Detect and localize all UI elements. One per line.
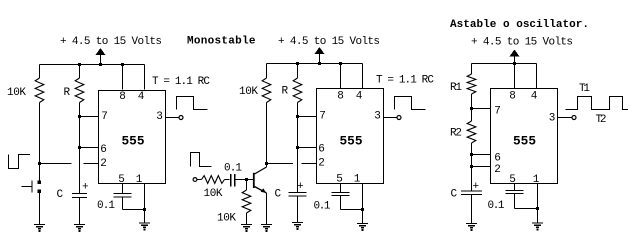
wire: pin 2 lead (right) bbox=[472, 166, 491, 168]
wire: 0.1 cap to pin-1 column (left) bbox=[122, 197, 124, 210]
resistor R (middle) bbox=[293, 78, 302, 103]
svg-text:3: 3 bbox=[374, 111, 381, 123]
wire: R bottom through pin junctions to C (middle) bbox=[297, 103, 299, 193]
svg-text:T = 1.1 RC: T = 1.1 RC bbox=[152, 76, 210, 88]
wire: R2 bottom through pin 6/2 nodes to C (right) bbox=[471, 143, 473, 191]
node: rail junction at R (left) bbox=[78, 63, 81, 66]
svg-text:555: 555 bbox=[340, 134, 363, 149]
wire: left top supply rail bbox=[40, 64, 145, 66]
svg-text:10K: 10K bbox=[7, 87, 26, 99]
svg-text:+: + bbox=[297, 181, 304, 193]
wire: pin 7 lead (left) bbox=[80, 116, 99, 118]
svg-text:5: 5 bbox=[118, 174, 125, 186]
svg-text:1: 1 bbox=[533, 174, 540, 186]
node: rail junction at supply stem (middle) bbox=[318, 62, 321, 65]
ground below C (right) bbox=[466, 224, 477, 232]
svg-text:4: 4 bbox=[356, 91, 363, 103]
svg-text:Monostable: Monostable bbox=[187, 36, 256, 48]
wire: pin 1 to ground (middle) bbox=[362, 184, 364, 224]
svg-text:2: 2 bbox=[494, 164, 501, 176]
wire: pin 4 lead from rail (right) bbox=[536, 64, 538, 89]
wire: trigger to pin 2, left segment (left) bbox=[40, 163, 72, 165]
wire: pin 4 lead from rail (middle) bbox=[362, 64, 364, 89]
op-amp/IC U1 555 body (left) bbox=[99, 91, 166, 184]
wire: pin 5 lead down (right) bbox=[514, 184, 516, 191]
svg-text:0.1: 0.1 bbox=[314, 201, 331, 213]
resistor 10K pull-up (left) bbox=[35, 78, 44, 103]
svg-text:+ 4.5 to 15 Volts: + 4.5 to 15 Volts bbox=[278, 36, 380, 48]
capacitor C timing (right) bbox=[461, 191, 482, 195]
svg-text:7: 7 bbox=[494, 106, 501, 118]
wire: pin 1 to ground (right) bbox=[537, 184, 539, 224]
wire: resistor to coupling cap (middle) bbox=[225, 179, 230, 181]
node: collector/trigger node (middle) bbox=[265, 162, 268, 165]
wire: 10K top lead (left) bbox=[39, 65, 41, 79]
svg-text:555: 555 bbox=[122, 134, 145, 149]
svg-text:4: 4 bbox=[531, 91, 538, 103]
wire: C to ground (middle) bbox=[297, 196, 299, 223]
wire: pin 6 lead (left) bbox=[80, 147, 99, 149]
waveform: input positive pulse (middle) bbox=[191, 153, 212, 167]
wire: pin 3 output lead (left) bbox=[166, 117, 180, 119]
resistor R2 (right) bbox=[467, 121, 476, 143]
transistor Q1 NPN (middle) bbox=[254, 167, 267, 193]
resistor 10K series input (middle) bbox=[202, 176, 225, 184]
wire: pin 5 lead down (middle) bbox=[340, 184, 342, 193]
node: junction at pin 7 (left) bbox=[78, 115, 81, 118]
node: junction at pin 1 column (middle) bbox=[361, 208, 364, 211]
wire: pin 6 lead (right) bbox=[472, 154, 491, 156]
svg-text:+: + bbox=[82, 182, 89, 194]
ground below pulldown (middle) bbox=[241, 225, 252, 233]
resistor R1 (right) bbox=[467, 74, 476, 94]
wire: pin 7 lead (middle) bbox=[298, 116, 317, 118]
waveform: square wave output (right) bbox=[566, 97, 629, 110]
wire: pin 3 output lead (middle) bbox=[384, 117, 398, 119]
switch S1 pushbutton (left) bbox=[22, 181, 42, 194]
svg-text:5: 5 bbox=[336, 174, 343, 186]
waveform: output pulse (middle) bbox=[395, 97, 426, 110]
wire: trigger to pin 2 left segment (middle) bbox=[267, 163, 294, 165]
capacitor C timing (middle) bbox=[288, 193, 306, 197]
svg-text:2: 2 bbox=[100, 158, 107, 170]
ground below switch (left) bbox=[34, 225, 45, 233]
wire: R1 bottom to pin 7 node and R2 (right) bbox=[471, 94, 473, 121]
wire: pin 2 lead right of crossover (middle) bbox=[302, 163, 317, 165]
svg-text:0.1: 0.1 bbox=[224, 163, 242, 175]
wire: pin 3 output lead (right) bbox=[558, 117, 573, 119]
svg-text:0.1: 0.1 bbox=[488, 200, 505, 212]
supply arrow (middle) bbox=[315, 47, 325, 65]
wire: 0.1 cap to pin-1 column (middle) bbox=[340, 196, 342, 210]
wire: pin 8 lead from rail (right) bbox=[514, 64, 516, 89]
wire: switch to ground (left) bbox=[39, 193, 41, 225]
op-amp/IC U2 555 body (middle) bbox=[317, 89, 384, 184]
svg-text:C: C bbox=[451, 189, 458, 201]
svg-text:6: 6 bbox=[318, 144, 325, 156]
ground below pin 1 (right) bbox=[532, 223, 543, 231]
wire: pulldown to ground (middle) bbox=[246, 213, 248, 225]
svg-text:1: 1 bbox=[136, 174, 143, 186]
node: junction at pin 6 (left) bbox=[78, 146, 81, 149]
node: base node junction (middle) bbox=[245, 178, 248, 181]
wire: R top lead (middle) bbox=[297, 64, 299, 79]
node: junction at pin 1 column (right) bbox=[536, 207, 539, 210]
node: rail junction at supply stem (left) bbox=[99, 63, 102, 66]
node: junction at pin 6 (middle) bbox=[296, 146, 299, 149]
svg-text:7: 7 bbox=[319, 111, 326, 123]
wire: collector up to trigger node (middle) bbox=[266, 164, 268, 168]
waveform: output pulse (left) bbox=[177, 97, 208, 110]
wire: pin 7 lead (right) bbox=[472, 108, 491, 110]
svg-text:R2: R2 bbox=[450, 128, 462, 140]
wire: R top lead (left) bbox=[79, 65, 81, 79]
node: junction at pin 7 (middle) bbox=[296, 115, 299, 118]
ground below C (left) bbox=[74, 225, 85, 233]
node: rail junction at supply stem / pin 8 (right) bbox=[513, 62, 516, 65]
waveform: negative trigger pulse (left) bbox=[9, 155, 31, 169]
svg-text:R1: R1 bbox=[450, 82, 462, 94]
svg-text:2: 2 bbox=[318, 158, 325, 170]
capacitor 0.1 bypass (middle) bbox=[331, 193, 349, 196]
svg-text:T2: T2 bbox=[596, 114, 607, 126]
node: trigger node junction (left) bbox=[38, 162, 41, 165]
svg-text:Astable o oscillator.: Astable o oscillator. bbox=[450, 19, 589, 31]
svg-text:T = 1.1 RC: T = 1.1 RC bbox=[376, 75, 434, 87]
wire: 10K bottom to collector node (middle) bbox=[266, 103, 268, 164]
svg-text:6: 6 bbox=[494, 153, 501, 165]
ground below pin 1 (middle) bbox=[357, 224, 368, 232]
wire: base node to pulldown (middle) bbox=[246, 180, 248, 191]
wire: middle top supply rail bbox=[267, 63, 363, 65]
wire: emitter to ground (middle) bbox=[266, 193, 268, 225]
svg-text:10K: 10K bbox=[239, 86, 258, 98]
svg-text:8: 8 bbox=[337, 91, 344, 103]
svg-text:555: 555 bbox=[513, 134, 536, 149]
node: rail junction at R (middle) bbox=[296, 62, 299, 65]
capacitor C timing (left) bbox=[72, 194, 87, 198]
svg-text:8: 8 bbox=[509, 91, 516, 103]
svg-text:R: R bbox=[64, 87, 71, 99]
resistor 10K base pulldown (middle) bbox=[242, 190, 251, 213]
wire: pin 8 lead from rail (left) bbox=[122, 65, 124, 90]
node: rail junction at pin 8 (left) bbox=[121, 63, 124, 66]
svg-text:C: C bbox=[275, 189, 282, 201]
wire: pin 6 lead (middle) bbox=[298, 147, 317, 149]
svg-text:+ 4.5 to 15 Volts: + 4.5 to 15 Volts bbox=[471, 37, 573, 49]
svg-text:7: 7 bbox=[101, 111, 108, 123]
terminal: output circle (right) bbox=[572, 116, 576, 120]
node: junction at pin 7 (right) bbox=[470, 107, 473, 110]
node: junction at pin 1 column (left) bbox=[143, 208, 146, 211]
wire: 10K top lead (middle) bbox=[266, 64, 268, 79]
terminal: output circle (left) bbox=[179, 116, 183, 120]
supply arrow (left) bbox=[96, 48, 106, 66]
svg-text:3: 3 bbox=[549, 113, 556, 125]
wire: pin 2 lead right of crossover (left) bbox=[84, 163, 99, 165]
capacitor 0.1 bypass (right) bbox=[505, 191, 523, 194]
wire: pin 4 lead from rail (left) bbox=[144, 65, 146, 90]
resistor R (left) bbox=[75, 78, 84, 103]
wire: coupling cap to base node (middle) bbox=[236, 179, 247, 181]
capacitor 0.1 bypass (left) bbox=[113, 194, 131, 198]
wire: C to ground (right) bbox=[471, 195, 473, 224]
svg-text:10K: 10K bbox=[217, 213, 236, 225]
op-amp/IC U3 555 body (right) bbox=[491, 89, 558, 184]
svg-text:1: 1 bbox=[354, 174, 361, 186]
svg-text:6: 6 bbox=[100, 144, 107, 156]
resistor 10K pull-up (middle) bbox=[262, 78, 271, 103]
svg-text:C: C bbox=[57, 189, 64, 201]
capacitor 0.1 coupling (middle) bbox=[231, 174, 235, 187]
svg-text:10K: 10K bbox=[204, 188, 223, 200]
svg-text:8: 8 bbox=[119, 91, 126, 103]
wire: C to ground (left) bbox=[79, 198, 81, 225]
svg-text:4: 4 bbox=[138, 91, 145, 103]
svg-text:R: R bbox=[282, 86, 289, 98]
svg-text:T1: T1 bbox=[579, 83, 590, 95]
node: junction at pin 6 (right) bbox=[470, 153, 473, 156]
svg-text:+: + bbox=[473, 181, 480, 193]
ground below pin 1 (left) bbox=[139, 223, 150, 231]
terminal: output circle (middle) bbox=[397, 116, 401, 120]
ground below emitter (middle) bbox=[261, 225, 272, 233]
wire: right top supply rail bbox=[472, 63, 537, 65]
terminal: input circle (middle) bbox=[193, 178, 197, 182]
wire: pin 1 to ground (left) bbox=[144, 184, 146, 224]
svg-text:+ 4.5 to 15 Volts: + 4.5 to 15 Volts bbox=[60, 36, 162, 48]
svg-text:0.1: 0.1 bbox=[97, 200, 115, 212]
wire: 10K bottom to trigger node (left) bbox=[39, 103, 41, 164]
ground below C (middle) bbox=[292, 223, 303, 231]
wire: R1 top lead (right) bbox=[471, 64, 473, 75]
wire: 0.1 cap to pin-1 column (right) bbox=[514, 194, 516, 209]
svg-text:3: 3 bbox=[156, 111, 163, 123]
wire: R bottom to pin7/pin6/C column (left) bbox=[79, 103, 81, 194]
node: rail junction at pin 8 (middle) bbox=[339, 62, 342, 65]
supply arrow (right) bbox=[510, 50, 520, 68]
wire: pin 5 lead down (left) bbox=[122, 184, 124, 194]
wire: pin 8 lead from rail (middle) bbox=[340, 64, 342, 89]
wire: base node to transistor base (middle) bbox=[247, 179, 254, 181]
node: junction at pin 2 (right) bbox=[470, 165, 473, 168]
wire: trigger node to switch (left) bbox=[39, 164, 41, 182]
wire: input circle to series resistor (middle) bbox=[197, 179, 202, 181]
